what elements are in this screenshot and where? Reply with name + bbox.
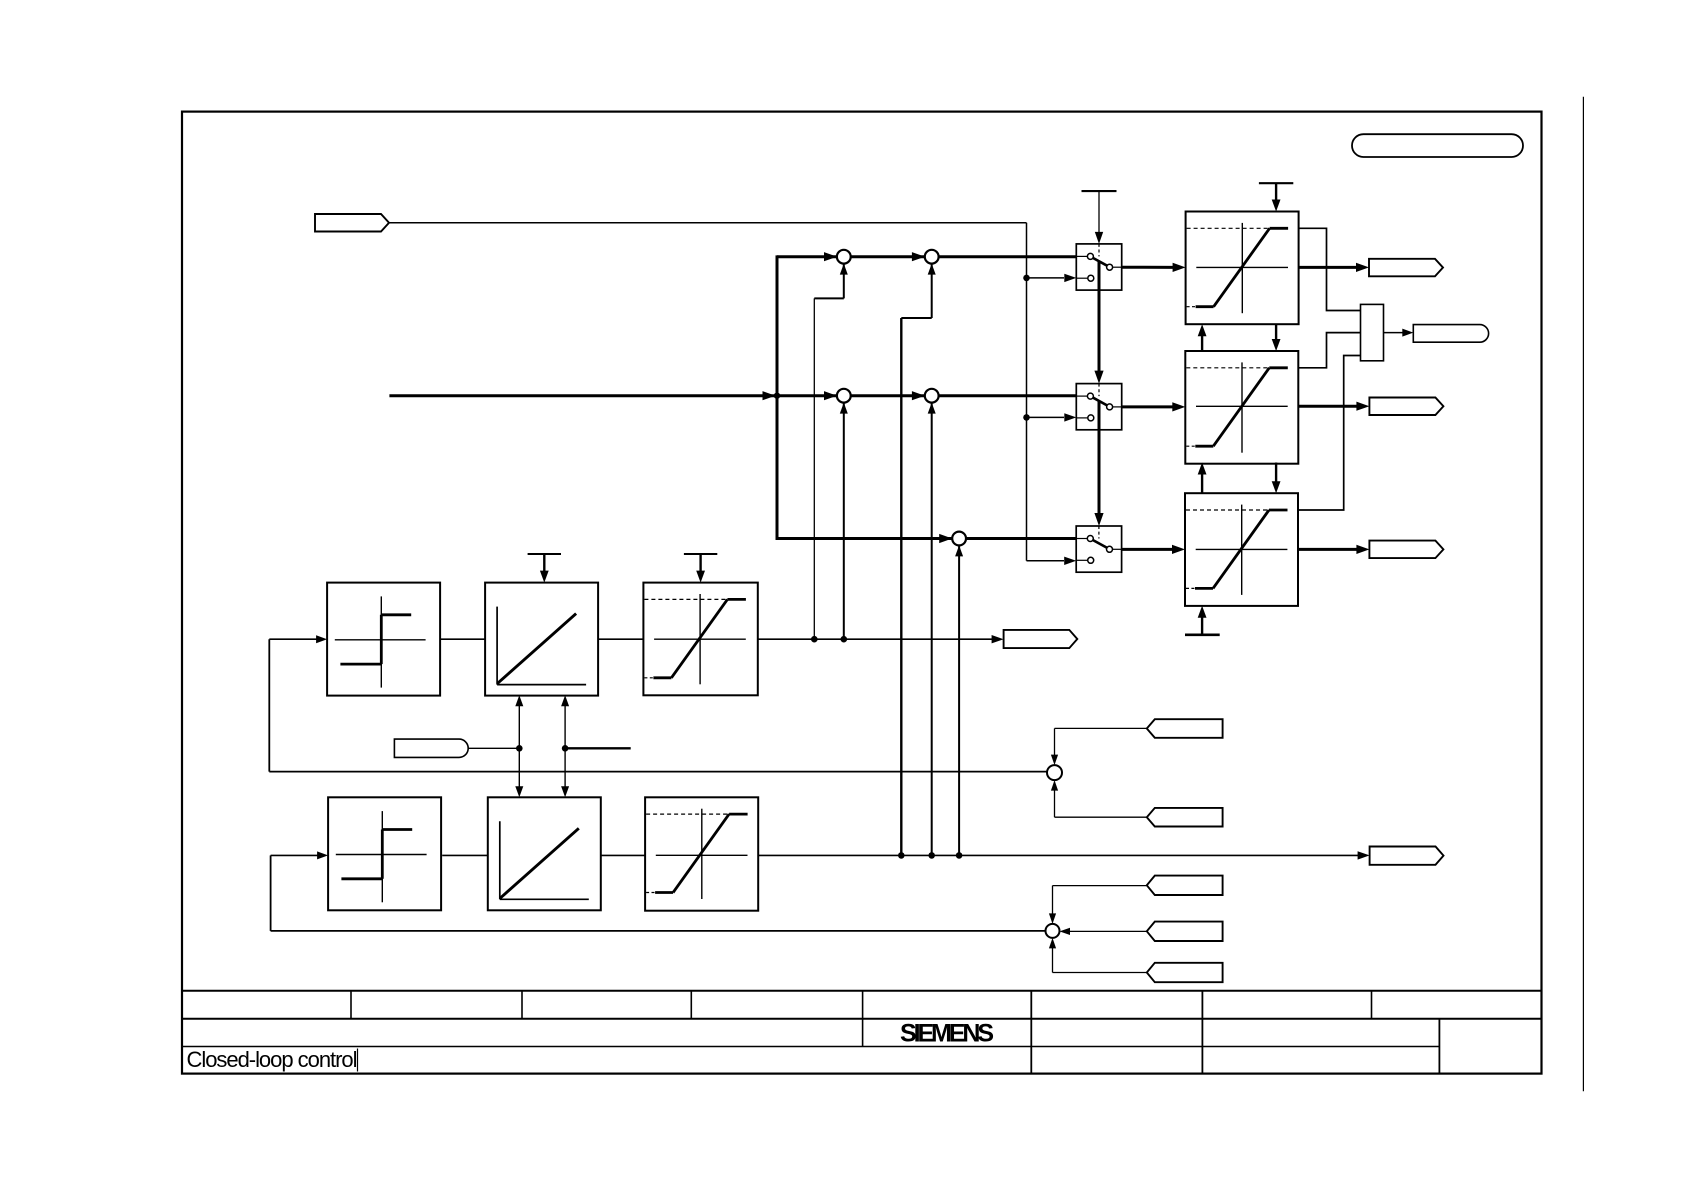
svg-text:SIEMENS: SIEMENS: [900, 1020, 994, 1048]
svg-text:Closed-loop control: Closed-loop control: [187, 1047, 358, 1072]
